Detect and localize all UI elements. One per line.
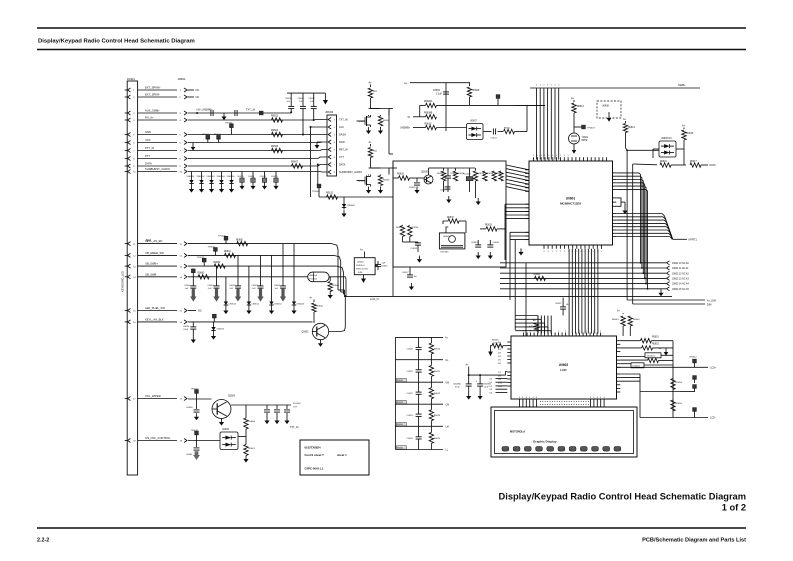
svg-text:1: 1 (537, 155, 538, 157)
wire row3 (188, 112, 291, 114)
svg-text:2: 2 (572, 331, 573, 333)
svg-text:PTT_M: PTT_M (145, 146, 155, 150)
diagram title line 2 (722, 503, 746, 513)
title block line1 (305, 446, 321, 450)
svg-text:DL0601: DL0601 (647, 356, 655, 358)
ground audio4 (476, 252, 481, 259)
svg-text:A+: A+ (623, 118, 627, 121)
resistor R0652 (642, 344, 660, 350)
svg-text:R0614: R0614 (628, 127, 635, 129)
svg-text:4: 4 (593, 397, 594, 399)
wire J0401 to J0601 row SUNBURST_AUDIO (138, 171, 177, 173)
svg-text:FL0603: FL0603 (293, 403, 301, 405)
wire q0604 out (231, 404, 263, 406)
wire J0401 to J0601 row LED_PL/EL_SW (138, 310, 177, 312)
svg-text:DATA: DATA (710, 164, 717, 167)
junction dots lcd rail (468, 374, 481, 376)
svg-text:2: 2 (593, 331, 594, 333)
capacitor C0630 (409, 178, 424, 194)
svg-text:Cont'd sheet T: Cont'd sheet T (305, 453, 325, 457)
keypad filter capacitors (184, 244, 286, 302)
svg-text:C0624: C0624 (407, 438, 414, 440)
testpoint TP0622 (197, 257, 207, 266)
wire J0401 to J0601 row PTT_M (138, 150, 177, 152)
svg-text:0102TX8824: 0102TX8824 (305, 446, 321, 450)
connector J0401 pin 9 (125, 164, 136, 168)
svg-text:47uF: 47uF (455, 387, 460, 389)
svg-text:2: 2 (547, 85, 548, 87)
svg-text:U0602: U0602 (559, 363, 569, 367)
ground C0623A (466, 394, 471, 400)
svg-text:3: 3 (580, 251, 581, 253)
wire J0601 pin1 NC (188, 88, 200, 92)
wire x673 vertical (672, 341, 674, 418)
wire row5 (188, 134, 327, 136)
svg-text:Graphic Display: Graphic Display (533, 440, 557, 444)
svg-text:U0603: U0603 (443, 236, 450, 238)
svg-text:C0650: C0650 (184, 285, 191, 287)
wire u0609 right (238, 436, 246, 438)
svg-text:LCD-: LCD- (710, 417, 716, 420)
svg-text:C0610: C0610 (237, 176, 244, 178)
svg-text:R0612: R0612 (326, 192, 334, 195)
ladder capacitors (407, 337, 422, 449)
connector J0401 pin 16 (125, 320, 137, 324)
resistor R0608A (424, 100, 437, 108)
svg-text:C0634: C0634 (471, 242, 478, 244)
wire r0646 bracket (491, 346, 508, 352)
svg-text:ON_OFF_CONTROL: ON_OFF_CONTROL (145, 436, 171, 440)
wire audio rail (443, 167, 475, 169)
svg-text:R0667: R0667 (249, 448, 256, 450)
IC U0602 top pin numbers (523, 331, 601, 333)
connector J0401 pin 15 (125, 309, 137, 313)
wire 105 row right join (515, 104, 546, 106)
wire bus line 3 (port B) (543, 88, 545, 160)
wire row6 (188, 141, 327, 144)
varistor VR0605 (227, 172, 236, 193)
connector J0401 pin 7 (125, 149, 136, 153)
testpoint TP0604 (312, 184, 321, 197)
resistor R0603 row5 (272, 132, 283, 136)
IC U0602 refdes (559, 363, 569, 367)
capacitor C0642 (375, 261, 388, 270)
connector J0601 pin 3 (180, 111, 188, 115)
display label (533, 440, 557, 444)
svg-text:4: 4 (522, 397, 523, 399)
svg-text:TP0604: TP0604 (214, 134, 222, 136)
capacitor C0623A (453, 375, 472, 394)
svg-text:1: 1 (556, 155, 557, 157)
svg-text:3: 3 (593, 251, 594, 253)
wire KPRT bundle merge (616, 214, 672, 240)
testpoint TP0601 (196, 111, 263, 115)
capacitor C0603 (series row3) (211, 110, 213, 116)
wire row7 (188, 150, 327, 151)
resistor R0635v (492, 171, 503, 181)
wire to opto U0607 (437, 127, 467, 129)
resistor R0621 (368, 144, 377, 158)
wire filter vert (445, 83, 447, 131)
wire fl0601 (620, 364, 673, 365)
vertical x510 audio (509, 232, 511, 300)
svg-text:EXT_SPKR+: EXT_SPKR+ (145, 86, 161, 90)
IC U0602 left pins (507, 342, 511, 386)
wire after C0611 (498, 131, 504, 133)
ladder left rail (394, 337, 396, 449)
svg-text:C0622: C0622 (407, 393, 414, 395)
svg-text:100K: 100K (493, 342, 498, 344)
svg-text:R0632: R0632 (397, 380, 404, 382)
wire row9 (188, 165, 327, 167)
svg-text:2: 2 (544, 331, 545, 333)
net label A+ u0606 (682, 125, 686, 128)
svg-text:R0644: R0644 (633, 319, 640, 321)
connector J0401 pin 11 (125, 242, 137, 246)
svg-text:2: 2 (579, 331, 580, 333)
net label BLK (146, 238, 151, 242)
vertical x505 audio (504, 204, 506, 260)
capacitor C0622 (555, 298, 570, 316)
svg-text:TP0621: TP0621 (208, 247, 216, 249)
IC U0602 body (511, 336, 617, 399)
resistor R0640 (312, 300, 324, 324)
IC U0601 top pin numbers (533, 155, 569, 157)
svg-text:PBT_W: PBT_W (339, 149, 348, 152)
wire unswb row (413, 127, 426, 129)
svg-text:C0651: C0651 (208, 285, 215, 287)
wire mic bias (403, 237, 419, 243)
capacitor C0633 (411, 242, 422, 252)
IC U0602 part number (560, 368, 567, 372)
title block line3 (305, 467, 324, 471)
ground q0602 (318, 340, 323, 347)
connector J0601 pin 12 (180, 253, 188, 257)
connector J0601 pin 7 (180, 149, 188, 153)
svg-text:3: 3 (564, 251, 565, 253)
varistor VR0604 (217, 172, 226, 193)
svg-text:R0615: R0615 (687, 133, 694, 135)
net label DAW J0603 (339, 141, 345, 144)
svg-text:C0623: C0623 (407, 415, 414, 417)
svg-text:GND: GND (145, 130, 151, 134)
svg-text:3: 3 (576, 251, 577, 253)
ground audio1 (446, 196, 451, 203)
svg-text:C0635: C0635 (493, 242, 500, 244)
resistor R0666 (244, 405, 256, 437)
testpoint TP0603A (202, 134, 210, 142)
rail SWB+ top (530, 87, 700, 89)
wire bus line 6 (port B) (554, 88, 556, 160)
resistor R0647 (529, 323, 539, 331)
IC U0601 refdes (566, 197, 576, 201)
svg-text:R0646: R0646 (492, 340, 499, 342)
footer rule (37, 527, 746, 529)
wire r0617 label DATA (701, 164, 716, 167)
net label RX_A+ (145, 116, 154, 120)
wire vertical x393 (392, 161, 394, 296)
net label EXT_SPKR- (145, 93, 160, 97)
svg-text:1: 1 (560, 155, 561, 157)
svg-text:R0620: R0620 (434, 349, 441, 351)
net label V LCD+ (710, 366, 717, 369)
wire J0401 to J0601 row KEYL_AN_EN (138, 243, 177, 245)
svg-text:R0666: R0666 (249, 421, 256, 423)
IC U0601 part number (560, 202, 581, 206)
resistor R0646 (492, 340, 503, 348)
net label KEYL_AN_BLK (145, 317, 164, 321)
capacitor C0610 (feedthru) (237, 172, 245, 190)
svg-text:FL0602: FL0602 (463, 174, 471, 176)
ground c0617 (409, 283, 414, 290)
svg-text:1 of 2: 1 of 2 (722, 503, 746, 513)
svg-text:BLK: BLK (146, 238, 151, 242)
resistor R0609 (467, 83, 480, 106)
capacitor C0632 (440, 187, 451, 192)
net label TXT_JA bottom (290, 426, 299, 429)
svg-text:NC: NC (196, 95, 200, 99)
svg-text:J0601: J0601 (178, 77, 187, 81)
svg-text:EXT_SPKR-: EXT_SPKR- (145, 93, 160, 97)
wire crossing rows to J0602 arrows (500, 263, 666, 289)
net label LCD- (710, 417, 716, 420)
wire arrow drop r065 (659, 348, 661, 349)
svg-text:1: 1 (533, 155, 534, 157)
ladder resistors (429, 337, 441, 449)
resistor R0610A (425, 123, 437, 129)
testpoint TP0612 (693, 385, 697, 392)
resistor R0605 row7 (272, 148, 283, 152)
testpoint TP0621 (208, 247, 218, 256)
resistor R0667 (244, 437, 256, 456)
connector J0601 label (178, 77, 187, 81)
svg-text:4: 4 (526, 397, 527, 399)
svg-text:C0617: C0617 (402, 272, 409, 274)
diode CR0601 (341, 197, 355, 217)
svg-text:1: 1 (548, 155, 549, 157)
connector J0401 body (127, 81, 137, 475)
dotted flex lines (540, 402, 589, 405)
display outer box (491, 407, 637, 457)
svg-text:R0637: R0637 (447, 217, 454, 219)
net label PBT_W J0603 (339, 149, 348, 152)
svg-text:R0623: R0623 (434, 415, 441, 417)
testpoint TP0623 (191, 269, 195, 277)
net label A+ u0604 (360, 249, 364, 252)
header bottom rule (37, 49, 746, 51)
varistor VR0602 (197, 172, 206, 193)
capacitor C0607 (309, 93, 317, 121)
svg-text:4: 4 (519, 397, 520, 399)
resistor R0654 (671, 379, 683, 390)
rail A+ filter (410, 82, 470, 84)
svg-text:MOTOROLA: MOTOROLA (510, 430, 525, 434)
svg-text:3: 3 (601, 251, 602, 253)
svg-text:2: 2 (536, 85, 537, 87)
svg-text:LM: LM (446, 427, 449, 429)
voltage detector U0604 (354, 252, 375, 275)
svg-text:C0654: C0654 (274, 285, 281, 287)
label R0612 (326, 192, 334, 195)
svg-text:C0605: C0605 (285, 98, 292, 100)
wire y150 to opto (626, 149, 659, 151)
svg-text:INT MIC: INT MIC (441, 252, 450, 254)
microphone U0603 (439, 233, 465, 254)
wire Q gate 0 (357, 120, 364, 122)
svg-text:C0652: C0652 (229, 285, 236, 287)
svg-text:U0609: U0609 (222, 429, 229, 431)
svg-text:Q0602: Q0602 (302, 332, 310, 334)
connector J0601 pin 11 (180, 242, 188, 246)
net label A+ Q0604 (369, 141, 373, 144)
connector J0601 pin 13 (180, 264, 188, 268)
svg-text:sheet 1: sheet 1 (337, 453, 347, 457)
svg-text:R0635: R0635 (397, 447, 404, 449)
connector J0601 pin 18 (180, 439, 188, 443)
svg-text:C0606: C0606 (298, 98, 305, 100)
svg-text:3: 3 (560, 251, 561, 253)
svg-text:R0616: R0616 (660, 161, 667, 163)
resistor R0655 (671, 400, 683, 411)
svg-text:SWB+: SWB+ (678, 83, 686, 87)
svg-text:C0609: C0609 (433, 90, 440, 92)
svg-text:C4PC-0041-L1: C4PC-0041-L1 (305, 467, 324, 471)
net label PTT (145, 154, 150, 158)
resistor R0613 (572, 100, 585, 113)
wire J0401 to J0601 row KEYL_AN_BLK (138, 321, 177, 323)
wire bus line 5 (port B) (550, 88, 552, 160)
svg-text:U0601: U0601 (566, 197, 576, 201)
resistor R0634v (483, 171, 494, 181)
svg-text:DATA: DATA (339, 164, 346, 167)
wire left pins group2 (505, 204, 529, 218)
title block line2 (305, 453, 325, 457)
svg-text:C0630: C0630 (409, 187, 416, 189)
optocoupler U0606 (659, 138, 676, 157)
svg-text:R0608B: R0608B (424, 112, 433, 114)
wire under-J0603 rail (319, 196, 356, 198)
svg-text:3: 3 (548, 251, 549, 253)
net label UB_EMER_SW (145, 251, 164, 255)
svg-text:J0401: J0401 (127, 77, 136, 81)
svg-text:R0621: R0621 (434, 371, 441, 373)
svg-text:RX_A+: RX_A+ (145, 116, 154, 120)
resistor R0611 series (504, 127, 515, 133)
wire fan U0602 topleft verticals (538, 316, 551, 334)
svg-text:R0641: R0641 (534, 274, 541, 276)
wire J0401 to J0601 row AUX_SWB+ (138, 112, 177, 114)
svg-text:C0653: C0653 (252, 285, 259, 287)
svg-text:R0605: R0605 (383, 180, 390, 182)
testpoint TP0605 (496, 95, 500, 106)
svg-text:C0620: C0620 (407, 349, 414, 351)
wire J0401 to J0601 row DATA (138, 165, 177, 167)
ladder left resistor labels (396, 378, 406, 449)
wire corner rowD (345, 277, 348, 296)
resistor R0602 row4 (272, 118, 283, 122)
wire mic in (393, 177, 399, 179)
testpoint TP0613 (693, 408, 697, 418)
testpoint TP0631 (191, 430, 199, 441)
label R0605 (271, 145, 279, 148)
svg-text:VR0602: VR0602 (197, 176, 206, 178)
capacitor C0634 (471, 240, 481, 247)
svg-text:R0634: R0634 (397, 424, 404, 426)
resistor R0637 (447, 217, 459, 223)
rail cap trio (287, 92, 325, 94)
svg-text:2: 2 (530, 331, 531, 333)
net label LED_PL/EL_SW (145, 306, 165, 310)
resistor R0651 (640, 337, 659, 343)
delay box DL0601 (645, 353, 661, 358)
svg-text:TP0602: TP0602 (225, 123, 233, 125)
wire cluster out 0 (389, 108, 393, 110)
svg-text:R0652: R0652 (652, 344, 659, 346)
net label UB_SWB+ (145, 262, 158, 266)
IC U0602 bottom pin numbers (519, 397, 605, 399)
svg-text:NC: NC (198, 309, 202, 313)
svg-text:Display/Keypad Radio Control H: Display/Keypad Radio Control Head Schema… (499, 492, 746, 502)
ground R 0 (378, 127, 383, 134)
svg-text:A+: A+ (369, 82, 373, 85)
resistor R0621B (378, 176, 390, 186)
svg-text:3: 3 (543, 251, 544, 253)
svg-text:R0662: R0662 (214, 262, 221, 264)
capacitor C0661 (186, 441, 200, 461)
svg-text:2: 2 (551, 85, 552, 87)
capacitor C0617 (402, 267, 417, 278)
wire keypad bus merge (338, 290, 345, 296)
wire y164 to R0616 (633, 163, 657, 166)
footer section text (642, 538, 746, 544)
connector J0603 pin 7 (328, 163, 336, 167)
connector J0401 pin 1 (125, 88, 136, 92)
svg-text:SUNBURST_AUDIO: SUNBURST_AUDIO (339, 171, 362, 174)
wire fl0603 gnd rail (0, 0, 1, 1)
svg-text:R0611: R0611 (504, 127, 511, 129)
connector J0601 pin 15 (180, 309, 188, 313)
resistor R0661 (224, 251, 236, 257)
net label VOX (145, 138, 151, 142)
wire r0653 (620, 359, 673, 361)
transistor Q0603 (359, 115, 371, 127)
svg-text:J0602 12 NC A2: J0602 12 NC A2 (672, 272, 689, 275)
svg-text:U0607: U0607 (470, 121, 477, 123)
net label GND (145, 130, 151, 134)
resistor R0633h (485, 225, 497, 231)
svg-text:J0602 11 NC A1: J0602 11 NC A1 (672, 267, 689, 270)
IC U0601 top pins (534, 157, 607, 161)
IC U0601 bottom pin numbers (543, 251, 601, 253)
wire R0608 loop (408, 105, 426, 119)
capacitor C0605 (285, 93, 294, 113)
svg-text:TXT_IN: TXT_IN (339, 119, 348, 122)
optocoupler U0609 (220, 429, 238, 450)
svg-text:R0661: R0661 (224, 251, 231, 253)
net label SUNBURST_AUDIO (145, 167, 170, 171)
arrow lcd (664, 348, 669, 356)
resistor R0641 (534, 274, 546, 280)
resistor R0663 (198, 273, 210, 279)
svg-text:KEYBOARD_LED: KEYBOARD_LED (121, 271, 125, 292)
wire KPRT tail (673, 238, 687, 240)
svg-text:PTT: PTT (145, 154, 150, 158)
svg-text:2: 2 (543, 85, 544, 87)
svg-text:C0623A: C0623A (453, 383, 461, 386)
svg-text:Y0601: Y0601 (582, 137, 589, 139)
svg-text:R0603: R0603 (271, 129, 279, 132)
svg-text:VR0603: VR0603 (207, 176, 216, 178)
